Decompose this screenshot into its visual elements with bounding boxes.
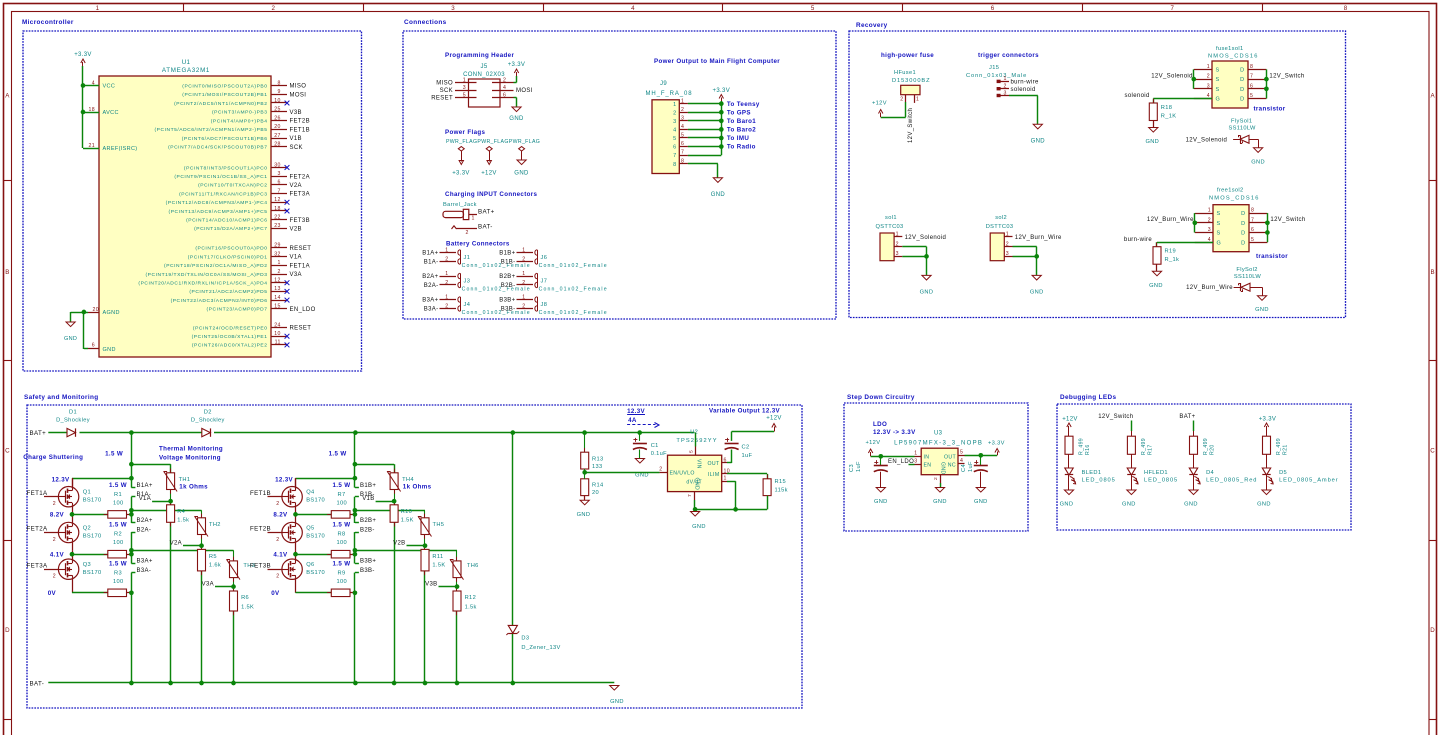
svg-text:1.5 W: 1.5 W [109, 482, 127, 489]
svg-text:2: 2 [1006, 241, 1009, 247]
svg-text:4: 4 [681, 124, 684, 130]
svg-text:D: D [1241, 211, 1245, 217]
svg-text:B1A+: B1A+ [137, 483, 153, 489]
svg-text:R4: R4 [177, 509, 185, 515]
svg-text:B2A-: B2A- [424, 283, 439, 289]
svg-text:(PCINT20/ADC1/RXD/RXLIN/ICP1A/: (PCINT20/ADC1/RXD/RXLIN/ICP1A/SCK_A)PD4 [138, 281, 267, 287]
svg-text:1k Ohms: 1k Ohms [403, 484, 432, 491]
svg-text:(PCINT14/ADC10/ACMP1)PC6: (PCINT14/ADC10/ACMP1)PC6 [186, 218, 267, 224]
svg-text:2: 2 [466, 230, 469, 236]
svg-text:4: 4 [631, 5, 635, 12]
svg-text:GND: GND [1060, 502, 1074, 508]
svg-text:1.5K: 1.5K [432, 562, 445, 568]
svg-text:Conn_01x03_Male: Conn_01x03_Male [966, 73, 1027, 79]
svg-text:GND: GND [1255, 307, 1269, 313]
svg-text:Charge Shuttering: Charge Shuttering [23, 454, 83, 461]
svg-text:12V_Switch: 12V_Switch [908, 108, 914, 143]
svg-text:(PCINT15/D2A/AMP2+)PC7: (PCINT15/D2A/AMP2+)PC7 [194, 226, 267, 232]
svg-text:Variable Output 12.3V: Variable Output 12.3V [709, 408, 780, 415]
svg-text:14: 14 [274, 295, 280, 301]
svg-text:LED_0805: LED_0805 [1082, 478, 1116, 484]
svg-text:12V_Burn_Wire: 12V_Burn_Wire [1147, 217, 1194, 223]
svg-text:5: 5 [463, 92, 466, 98]
svg-text:(PCINT4/AMP0+)PB4: (PCINT4/AMP0+)PB4 [211, 118, 268, 124]
svg-text:(PCINT0/MISO/PSCOUT2A)PB0: (PCINT0/MISO/PSCOUT2A)PB0 [182, 83, 267, 89]
svg-text:8.2V: 8.2V [50, 512, 65, 519]
svg-text:B2A-: B2A- [137, 527, 152, 533]
svg-text:GND: GND [1145, 139, 1159, 145]
svg-text:2: 2 [272, 5, 276, 12]
svg-text:GND: GND [577, 512, 591, 518]
svg-text:2: 2 [1208, 217, 1211, 223]
svg-text:TPS2592YY: TPS2592YY [676, 438, 717, 444]
svg-text:12.3V -> 3.3V: 12.3V -> 3.3V [873, 429, 916, 436]
svg-text:CONN_02X03: CONN_02X03 [463, 72, 505, 78]
svg-text:+12V: +12V [872, 101, 887, 107]
svg-text:S: S [1216, 77, 1220, 83]
svg-text:3: 3 [681, 115, 684, 121]
svg-text:S: S [1217, 221, 1221, 227]
svg-text:V1A: V1A [139, 496, 151, 502]
svg-text:R10: R10 [401, 509, 412, 515]
svg-text:+12V: +12V [866, 440, 881, 446]
svg-text:100: 100 [113, 579, 124, 585]
svg-text:BAT-: BAT- [30, 681, 45, 688]
svg-text:5: 5 [960, 450, 963, 456]
svg-text:2: 2 [659, 467, 662, 473]
svg-text:Safety and Monitoring: Safety and Monitoring [24, 394, 98, 401]
svg-text:100: 100 [113, 500, 124, 506]
svg-text:BAT-: BAT- [478, 223, 493, 230]
svg-text:SS110LW: SS110LW [1234, 274, 1261, 280]
svg-text:1: 1 [522, 294, 525, 300]
svg-text:GND: GND [874, 499, 888, 505]
svg-text:BS170: BS170 [306, 498, 325, 504]
svg-text:transistor: transistor [1256, 253, 1288, 260]
svg-text:V3B: V3B [290, 110, 302, 116]
svg-text:2: 2 [53, 501, 56, 507]
svg-text:100: 100 [337, 579, 348, 585]
svg-text:GND: GND [514, 171, 529, 177]
svg-text:26: 26 [274, 115, 280, 121]
svg-text:PWR_FLAG: PWR_FLAG [446, 139, 477, 145]
svg-text:2: 2 [522, 303, 525, 309]
svg-text:U1: U1 [182, 59, 191, 66]
svg-text:TH2: TH2 [209, 522, 221, 528]
svg-text:Thermal Monitoring: Thermal Monitoring [159, 446, 223, 453]
svg-text:11: 11 [275, 340, 281, 346]
svg-text:Voltage Monitoring: Voltage Monitoring [159, 455, 221, 462]
svg-text:8: 8 [1251, 208, 1254, 214]
svg-text:EN: EN [924, 462, 932, 468]
svg-text:SCK: SCK [440, 88, 453, 94]
svg-text:Q2: Q2 [83, 525, 91, 531]
svg-text:B2B-: B2B- [501, 283, 516, 289]
svg-text:1: 1 [1004, 76, 1007, 82]
svg-text:1: 1 [724, 476, 727, 482]
svg-text:J1: J1 [464, 255, 471, 261]
svg-text:1: 1 [681, 98, 684, 104]
svg-text:GND: GND [509, 116, 524, 122]
svg-text:7: 7 [277, 188, 280, 194]
svg-text:B3A-: B3A- [137, 568, 152, 574]
svg-text:TH5: TH5 [433, 522, 445, 528]
svg-text:+12V: +12V [766, 416, 782, 422]
svg-text:VIN: VIN [696, 459, 702, 469]
svg-text:1uF: 1uF [856, 461, 862, 472]
svg-text:R21: R21 [1283, 444, 1289, 455]
svg-text:GND: GND [610, 699, 624, 705]
svg-text:R_1K: R_1K [1161, 114, 1177, 120]
svg-text:LED_0805: LED_0805 [1144, 478, 1178, 484]
svg-text:6: 6 [503, 92, 506, 98]
svg-text:FET1B: FET1B [290, 127, 310, 133]
svg-text:MOSI: MOSI [290, 92, 307, 98]
svg-text:Q3: Q3 [83, 562, 91, 568]
svg-text:EN/UVLO: EN/UVLO [670, 471, 695, 477]
svg-text:Conn_01x02_Female: Conn_01x02_Female [539, 287, 608, 293]
svg-text:3: 3 [896, 251, 899, 257]
svg-text:(PCINT26/ADC0/XTAL2)PE2: (PCINT26/ADC0/XTAL2)PE2 [192, 343, 268, 349]
svg-text:D_Shockley: D_Shockley [191, 418, 225, 424]
svg-text:R15: R15 [775, 479, 786, 485]
svg-text:D3: D3 [521, 636, 529, 642]
svg-text:8: 8 [1250, 64, 1253, 70]
svg-text:Q5: Q5 [306, 525, 314, 531]
svg-text:NMOS_CDS16: NMOS_CDS16 [1208, 54, 1259, 60]
svg-text:18: 18 [89, 107, 95, 113]
svg-text:115k: 115k [775, 487, 788, 493]
svg-text:2: 2 [896, 241, 899, 247]
svg-text:12V_Solenoid: 12V_Solenoid [1186, 137, 1228, 143]
svg-text:D: D [1240, 68, 1244, 74]
svg-text:AGND: AGND [103, 310, 120, 316]
svg-text:2: 2 [276, 574, 279, 580]
svg-text:20: 20 [93, 307, 99, 313]
svg-text:Recovery: Recovery [856, 22, 888, 29]
svg-text:C4: C4 [961, 464, 967, 472]
svg-text:G: G [1216, 97, 1221, 103]
svg-text:2: 2 [445, 280, 448, 286]
svg-text:1.5 W: 1.5 W [329, 451, 347, 458]
svg-text:BLED1: BLED1 [1082, 470, 1102, 476]
svg-text:sol2: sol2 [995, 215, 1007, 221]
svg-text:FET2B: FET2B [290, 119, 310, 125]
svg-text:(PCINT25/OC0B/XTAL1)PE1: (PCINT25/OC0B/XTAL1)PE1 [192, 334, 268, 340]
svg-text:(PCINT10/T0/TXCAN)PC2: (PCINT10/T0/TXCAN)PC2 [198, 183, 267, 189]
svg-text:B: B [5, 269, 9, 276]
svg-text:R_499: R_499 [1079, 438, 1085, 455]
svg-text:To Teensy: To Teensy [727, 101, 760, 108]
svg-text:133: 133 [592, 464, 603, 470]
svg-text:5: 5 [811, 5, 815, 12]
svg-text:R19: R19 [1165, 249, 1176, 255]
svg-text:(PCINT17/CLKO/PSCIN0)PD1: (PCINT17/CLKO/PSCIN0)PD1 [188, 254, 268, 260]
svg-text:+3.3V: +3.3V [508, 62, 526, 68]
svg-text:1.5 W: 1.5 W [333, 522, 351, 529]
svg-text:To Baro1: To Baro1 [727, 118, 756, 125]
svg-text:9: 9 [277, 89, 280, 95]
svg-text:32: 32 [274, 251, 280, 257]
svg-text:fuse1sol1: fuse1sol1 [1216, 46, 1244, 52]
svg-text:S: S [1216, 87, 1220, 93]
svg-text:burn-wire: burn-wire [1124, 237, 1152, 243]
svg-text:B1B+: B1B+ [499, 251, 515, 257]
svg-text:GND: GND [940, 462, 946, 475]
svg-text:1: 1 [673, 102, 676, 108]
svg-text:2: 2 [522, 256, 525, 262]
svg-text:Power Output to Main Flight Co: Power Output to Main Flight Computer [654, 58, 780, 65]
svg-text:V3A: V3A [202, 581, 214, 587]
svg-text:4: 4 [960, 458, 963, 464]
svg-text:12V_Solenoid: 12V_Solenoid [905, 235, 947, 241]
svg-text:GND: GND [692, 524, 706, 530]
svg-text:8.2V: 8.2V [273, 512, 288, 519]
svg-text:B3A-: B3A- [424, 307, 439, 313]
svg-text:trigger connectors: trigger connectors [978, 52, 1039, 59]
svg-text:BS170: BS170 [83, 570, 102, 576]
svg-text:B2A+: B2A+ [137, 518, 153, 524]
svg-text:5: 5 [1250, 93, 1253, 99]
svg-text:4: 4 [92, 80, 95, 86]
svg-text:MISO: MISO [290, 84, 307, 90]
svg-text:23: 23 [274, 223, 280, 229]
svg-text:+3.3V: +3.3V [712, 88, 730, 94]
svg-text:FET1B: FET1B [250, 490, 271, 497]
svg-text:R20: R20 [1210, 444, 1216, 455]
svg-text:LDO: LDO [873, 421, 887, 428]
svg-text:V2B: V2B [393, 541, 405, 547]
svg-text:(PCINT18/PSCIN2/OC1A/MISO_A)PD: (PCINT18/PSCIN2/OC1A/MISO_A)PD2 [164, 263, 267, 269]
svg-text:high-power fuse: high-power fuse [881, 52, 934, 59]
svg-text:2: 2 [1207, 74, 1210, 80]
svg-text:(PCINT6/ADC7/PSCOUT1B)PB6: (PCINT6/ADC7/PSCOUT1B)PB6 [182, 136, 268, 142]
svg-text:20: 20 [592, 490, 599, 496]
svg-text:7: 7 [681, 150, 684, 156]
svg-text:J6: J6 [541, 255, 548, 261]
svg-text:2: 2 [277, 269, 280, 275]
svg-text:1.5k: 1.5k [177, 518, 189, 524]
svg-text:(PCINT1/MOSI/PSCOUT2B)PB1: (PCINT1/MOSI/PSCOUT2B)PB1 [182, 92, 267, 98]
svg-text:burn-wire: burn-wire [1011, 80, 1039, 86]
svg-text:A: A [1430, 93, 1435, 100]
svg-text:12V_Switch: 12V_Switch [1270, 217, 1305, 223]
svg-text:30: 30 [274, 162, 280, 168]
svg-text:J3: J3 [464, 279, 471, 285]
svg-text:D4: D4 [1206, 470, 1214, 476]
svg-text:VCC: VCC [103, 84, 116, 90]
svg-text:100: 100 [337, 540, 348, 546]
svg-text:C: C [1430, 448, 1435, 455]
svg-text:0V: 0V [271, 590, 280, 597]
svg-text:B3B-: B3B- [360, 568, 375, 574]
svg-text:2: 2 [276, 537, 279, 543]
svg-text:7: 7 [1251, 217, 1254, 223]
svg-text:1k Ohms: 1k Ohms [179, 484, 208, 491]
svg-text:1: 1 [277, 260, 280, 266]
svg-text:DSTTC03: DSTTC03 [986, 224, 1014, 230]
svg-text:2: 2 [276, 501, 279, 507]
svg-text:0.1uF: 0.1uF [651, 451, 667, 457]
svg-text:FlySol2: FlySol2 [1236, 267, 1257, 273]
svg-text:7: 7 [1171, 5, 1175, 12]
svg-text:R12: R12 [465, 595, 476, 601]
svg-text:(PCINT22/ADC3/ACMPN2/INT0)PD6: (PCINT22/ADC3/ACMPN2/INT0)PD6 [171, 298, 268, 304]
svg-text:12V_Solenoid: 12V_Solenoid [1151, 74, 1193, 80]
svg-text:(PCINT12/ADC8/ACMPN3/AMP1-)PC4: (PCINT12/ADC8/ACMPN3/AMP1-)PC4 [166, 200, 268, 206]
svg-text:BS170: BS170 [83, 498, 102, 504]
svg-text:100: 100 [113, 540, 124, 546]
svg-text:MISO: MISO [436, 81, 453, 87]
svg-text:10: 10 [274, 98, 280, 104]
svg-text:To GPS: To GPS [727, 109, 751, 116]
svg-text:FET1A: FET1A [290, 263, 310, 269]
svg-text:C: C [5, 448, 10, 455]
svg-text:J5: J5 [480, 64, 487, 70]
svg-text:R13: R13 [592, 456, 603, 462]
svg-text:8: 8 [673, 162, 676, 168]
svg-text:D153000BZ: D153000BZ [892, 78, 930, 84]
svg-text:2: 2 [681, 107, 684, 113]
svg-text:SCK: SCK [290, 145, 303, 151]
svg-text:V2A: V2A [170, 541, 182, 547]
svg-text:(PCINT21/ADC2/ACMP2)PD5: (PCINT21/ADC2/ACMP2)PD5 [189, 289, 267, 295]
svg-text:Charging INPUT Connectors: Charging INPUT Connectors [445, 191, 537, 198]
svg-text:12V_Switch: 12V_Switch [1269, 74, 1304, 80]
svg-text:R16: R16 [1085, 444, 1091, 455]
svg-text:15: 15 [274, 304, 280, 310]
svg-text:R11: R11 [432, 554, 443, 560]
svg-text:AREF(ISRC): AREF(ISRC) [103, 146, 138, 152]
svg-text:6: 6 [724, 457, 727, 463]
svg-text:RESET: RESET [290, 246, 312, 252]
svg-text:D: D [1240, 87, 1244, 93]
svg-text:D: D [1430, 627, 1435, 634]
svg-text:1uF: 1uF [968, 461, 974, 472]
svg-text:1: 1 [463, 77, 466, 83]
svg-text:6: 6 [1250, 83, 1253, 89]
svg-text:(PCINT16/PSCOUT0A)PD0: (PCINT16/PSCOUT0A)PD0 [195, 246, 267, 252]
svg-text:B1B-: B1B- [501, 260, 516, 266]
svg-text:R6: R6 [241, 595, 249, 601]
svg-text:Microcontroller: Microcontroller [22, 19, 74, 26]
svg-text:1: 1 [96, 5, 100, 12]
svg-text:B2B+: B2B+ [499, 274, 515, 280]
svg-text:4: 4 [503, 85, 506, 91]
svg-text:GND: GND [974, 499, 988, 505]
svg-text:(PCINT19/TXD/TXLIN/OC0A/SS/MOS: (PCINT19/TXD/TXLIN/OC0A/SS/MOSI_A)PD3 [146, 272, 268, 278]
svg-text:GND: GND [1122, 502, 1136, 508]
svg-text:FET3B: FET3B [290, 218, 310, 224]
svg-text:7: 7 [687, 494, 693, 497]
svg-text:1uF: 1uF [742, 453, 753, 459]
svg-text:5: 5 [1251, 237, 1254, 243]
svg-text:29: 29 [274, 243, 280, 249]
svg-text:1: 1 [914, 451, 917, 457]
svg-text:(PCINT3/AMP0-)PB3: (PCINT3/AMP0-)PB3 [212, 110, 268, 116]
svg-text:LP5907MFX-3_3_NOPB: LP5907MFX-3_3_NOPB [894, 441, 983, 447]
svg-text:GND: GND [1149, 283, 1163, 289]
svg-text:B3B+: B3B+ [499, 298, 515, 304]
svg-text:R5: R5 [209, 554, 217, 560]
svg-text:D: D [1240, 77, 1244, 83]
svg-text:MOSI: MOSI [516, 88, 533, 94]
svg-text:Conn_01x02_Female: Conn_01x02_Female [539, 263, 608, 269]
svg-text:FET2A: FET2A [290, 174, 310, 180]
svg-text:PWR_FLAG: PWR_FLAG [509, 139, 540, 145]
svg-text:solenoid: solenoid [1011, 87, 1036, 93]
svg-text:B3A+: B3A+ [422, 298, 438, 304]
svg-text:LED_0805_Amber: LED_0805_Amber [1279, 478, 1338, 484]
svg-text:V3A: V3A [290, 272, 302, 278]
svg-text:3: 3 [1006, 251, 1009, 257]
svg-text:5: 5 [673, 136, 676, 142]
svg-text:G: G [1217, 240, 1222, 246]
svg-text:3: 3 [277, 171, 280, 177]
svg-text:BS170: BS170 [83, 533, 102, 539]
svg-text:Programming Header: Programming Header [445, 52, 514, 59]
svg-text:ATMEGA32M1: ATMEGA32M1 [162, 67, 210, 74]
svg-text:Power Flags: Power Flags [445, 129, 486, 136]
svg-text:TH4: TH4 [402, 477, 414, 483]
svg-text:4A: 4A [628, 417, 637, 424]
svg-text:5: 5 [688, 450, 694, 453]
svg-text:2: 2 [445, 256, 448, 262]
svg-text:8: 8 [277, 80, 280, 86]
svg-text:B2B-: B2B- [360, 527, 375, 533]
svg-text:U3: U3 [934, 431, 943, 437]
svg-text:J4: J4 [464, 302, 471, 308]
svg-text:LED_0805_Red: LED_0805_Red [1206, 478, 1257, 484]
svg-text:3: 3 [1207, 83, 1210, 89]
svg-text:B1B+: B1B+ [360, 483, 376, 489]
svg-text:NC: NC [948, 462, 956, 468]
svg-text:RESET: RESET [290, 326, 312, 332]
svg-text:(PCINT24/OCD/RESET)PE0: (PCINT24/OCD/RESET)PE0 [193, 325, 268, 331]
svg-text:FET3A: FET3A [290, 192, 310, 198]
svg-text:GND: GND [64, 336, 77, 342]
svg-text:S: S [1216, 68, 1220, 74]
svg-text:D: D [1241, 221, 1245, 227]
svg-text:SS110LW: SS110LW [1229, 126, 1256, 132]
svg-text:V2A: V2A [290, 183, 302, 189]
svg-text:B: B [1430, 269, 1434, 276]
svg-text:6: 6 [991, 5, 995, 12]
svg-text:12.3V: 12.3V [275, 477, 293, 484]
svg-text:4: 4 [673, 128, 676, 134]
svg-text:100: 100 [337, 500, 348, 506]
svg-text:GND: GND [1030, 290, 1044, 296]
svg-text:20: 20 [274, 124, 280, 130]
svg-text:R1: R1 [114, 492, 122, 498]
svg-text:12V_Burn_Wire: 12V_Burn_Wire [1186, 285, 1233, 291]
svg-text:R18: R18 [1161, 105, 1172, 111]
svg-text:BAT+: BAT+ [1179, 414, 1195, 420]
svg-text:1: 1 [522, 247, 525, 253]
svg-text:D: D [1241, 240, 1245, 246]
svg-text:sol1: sol1 [885, 215, 897, 221]
svg-text:1: 1 [522, 271, 525, 277]
svg-text:7: 7 [673, 153, 676, 159]
svg-text:IN: IN [924, 454, 930, 460]
svg-text:Q1: Q1 [83, 490, 91, 496]
svg-text:V2B: V2B [290, 227, 302, 233]
svg-text:24: 24 [274, 322, 280, 328]
svg-text:2: 2 [933, 477, 939, 480]
svg-text:FET3B: FET3B [250, 562, 271, 569]
svg-text:0V: 0V [48, 590, 57, 597]
svg-text:B2A+: B2A+ [422, 274, 438, 280]
